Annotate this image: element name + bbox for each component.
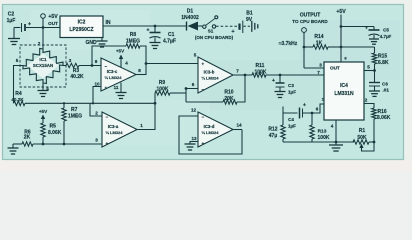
svg-text:+5V: +5V bbox=[116, 49, 125, 54]
svg-text:+: + bbox=[272, 78, 275, 84]
svg-text:¼ LM324: ¼ LM324 bbox=[202, 130, 220, 135]
resistor R11 100K bbox=[252, 63, 267, 77]
svg-text:5: 5 bbox=[16, 58, 19, 63]
wire R15 to IC4 pin 5 bbox=[364, 65, 376, 72]
wire OUT to IC2 bbox=[43, 21, 60, 28]
side ground after battery bbox=[252, 21, 258, 32]
svg-text:R9: R9 bbox=[159, 80, 166, 86]
potentiometer R1 50K bbox=[353, 128, 375, 151]
svg-text:.01: .01 bbox=[383, 88, 390, 93]
svg-text:C5: C5 bbox=[383, 28, 389, 33]
IC3-a output pin 1 bbox=[137, 93, 155, 130]
svg-text:OUT: OUT bbox=[48, 21, 58, 26]
svg-text:2K: 2K bbox=[24, 135, 31, 141]
bridge arm top-right bbox=[43, 49, 63, 66]
IC3-b output pin 7 bbox=[233, 69, 252, 77]
svg-text:OUTPUT: OUTPUT bbox=[300, 12, 321, 18]
svg-text:−: − bbox=[105, 64, 108, 69]
node line to IC3-a bbox=[25, 102, 156, 105]
ground below C6 bbox=[369, 91, 380, 96]
svg-text:+5V: +5V bbox=[48, 14, 58, 20]
capacitor C4 1uF bbox=[288, 103, 306, 129]
wire IC3-c out to IC3-b pin 5 bbox=[146, 53, 198, 64]
pin 6 label bbox=[192, 82, 195, 87]
resistor R6 2K bbox=[13, 130, 102, 147]
svg-text:5: 5 bbox=[194, 53, 197, 58]
node +5V terminal bbox=[41, 14, 59, 29]
svg-text:47µ: 47µ bbox=[269, 133, 278, 139]
svg-text:IC4: IC4 bbox=[340, 83, 348, 89]
pin 3 label bbox=[95, 138, 98, 143]
svg-text:¼ LM324: ¼ LM324 bbox=[202, 76, 220, 81]
op-amp IC3-a 1/4 LM324 bbox=[102, 112, 137, 147]
resistor R12 47u bbox=[268, 113, 285, 142]
svg-text:40.2K: 40.2K bbox=[70, 74, 84, 80]
svg-text:R7: R7 bbox=[71, 107, 78, 113]
IC3-d output pin 14 bbox=[233, 123, 242, 130]
voltage regulator IC2 LP2950CZ bbox=[60, 16, 103, 38]
svg-text:LP2950CZ: LP2950CZ bbox=[69, 27, 93, 33]
svg-text:+: + bbox=[28, 22, 31, 28]
svg-text:R10: R10 bbox=[224, 90, 233, 96]
svg-text:7: 7 bbox=[317, 70, 320, 75]
ground at IC3-c pin 11 bbox=[114, 83, 127, 99]
resistor R8 1MEG feedback bbox=[92, 32, 146, 75]
svg-text:IC1: IC1 bbox=[39, 57, 47, 62]
svg-text:+5V: +5V bbox=[39, 109, 48, 114]
svg-text:4: 4 bbox=[125, 61, 128, 66]
svg-text:11: 11 bbox=[114, 85, 119, 90]
svg-text:+: + bbox=[303, 103, 306, 109]
wire C4 to IC4 pin 6 bbox=[303, 97, 325, 115]
svg-text:R12: R12 bbox=[268, 127, 277, 133]
svg-text:R1: R1 bbox=[359, 128, 366, 134]
sensor pin 5 wire to R4 bbox=[14, 58, 24, 102]
svg-text:12: 12 bbox=[191, 108, 197, 113]
svg-text:OUT: OUT bbox=[330, 66, 340, 71]
svg-text:IC3-a: IC3-a bbox=[108, 124, 119, 129]
+5V arrow above R5 bbox=[39, 109, 48, 123]
svg-text:9: 9 bbox=[95, 59, 98, 64]
op-amp IC3-b 1/4 LM324 bbox=[198, 57, 233, 93]
capacitor C6 .01 bbox=[369, 71, 389, 93]
ground below C3 bbox=[275, 92, 286, 98]
svg-text:13: 13 bbox=[191, 136, 197, 141]
svg-text:B1: B1 bbox=[246, 11, 253, 17]
wire C2 to +5V node bbox=[14, 27, 43, 29]
svg-text:8.06K: 8.06K bbox=[377, 115, 391, 121]
svg-text:1µF: 1µF bbox=[7, 18, 16, 24]
resistor R10 20K feedback bbox=[186, 75, 245, 104]
op-amp IC3-d 1/4 LM324 bbox=[198, 112, 233, 147]
svg-text:IC2: IC2 bbox=[78, 20, 86, 26]
svg-text:+5V: +5V bbox=[336, 9, 346, 15]
svg-text:1µF: 1µF bbox=[288, 124, 296, 129]
capacitor C5 4.7uF bbox=[365, 26, 391, 40]
svg-text:−: − bbox=[202, 87, 205, 92]
svg-text:R15: R15 bbox=[378, 54, 387, 60]
svg-text:¼ LM324: ¼ LM324 bbox=[105, 75, 123, 80]
sensor pin 3 wire bbox=[63, 58, 72, 66]
page background bbox=[0, 0, 412, 171]
svg-text:−: − bbox=[106, 115, 109, 120]
ground at IC2 GND pin bbox=[85, 38, 107, 48]
wire +5V node to sensor pin 2 bbox=[38, 28, 43, 50]
svg-text:3: 3 bbox=[69, 58, 72, 63]
svg-text:C2: C2 bbox=[8, 12, 15, 18]
svg-text:+: + bbox=[105, 86, 108, 91]
ground left of R6 bbox=[8, 144, 19, 154]
svg-text:IC3-c: IC3-c bbox=[107, 69, 118, 74]
svg-text:R5: R5 bbox=[50, 124, 57, 130]
svg-text:R8: R8 bbox=[130, 32, 137, 38]
svg-text:+: + bbox=[202, 62, 205, 67]
pin 7 label bbox=[317, 70, 320, 75]
capacitor C3 1uF bbox=[272, 75, 296, 95]
svg-text:6: 6 bbox=[316, 107, 319, 112]
svg-text:IN: IN bbox=[106, 20, 111, 26]
svg-text:1µF: 1µF bbox=[288, 90, 296, 95]
svg-text:D1: D1 bbox=[187, 9, 194, 15]
bridge arm bottom-left bbox=[23, 66, 43, 84]
main ground symbol bbox=[329, 142, 343, 151]
svg-text:−: − bbox=[202, 115, 205, 120]
switch S1 (ON CPU BOARD) bbox=[195, 16, 238, 40]
svg-text:C1: C1 bbox=[168, 32, 175, 38]
output terminal to CPU board bbox=[292, 12, 328, 68]
sensor pin 4 ground bbox=[38, 83, 50, 97]
ground rail bbox=[283, 141, 354, 144]
resistor R15 6.8K bbox=[341, 47, 389, 71]
svg-text:R13: R13 bbox=[318, 129, 327, 135]
svg-text:+: + bbox=[365, 26, 368, 31]
svg-text:C6: C6 bbox=[382, 82, 388, 87]
svg-text:1MEG: 1MEG bbox=[68, 114, 82, 120]
svg-text:R14: R14 bbox=[314, 34, 323, 40]
svg-text:4.7µF: 4.7µF bbox=[380, 34, 392, 39]
svg-text:+: + bbox=[106, 141, 109, 146]
+5V arrow at IC3-c pin 4 bbox=[116, 49, 128, 68]
IC3-c output pin 8 wire bbox=[136, 62, 147, 74]
svg-text:LM331N: LM331N bbox=[334, 91, 354, 97]
svg-text:R11: R11 bbox=[256, 63, 265, 69]
svg-text:+: + bbox=[202, 141, 205, 146]
battery B1 9V bbox=[231, 11, 253, 36]
svg-text:IC3-b: IC3-b bbox=[204, 70, 215, 75]
resistor R13 100K bbox=[310, 113, 330, 142]
svg-text:≈3.7kHz: ≈3.7kHz bbox=[279, 41, 298, 47]
IC3-d pin 12 feedback loop bbox=[179, 108, 242, 155]
svg-text:+: + bbox=[231, 29, 234, 35]
svg-text:SCX15AN: SCX15AN bbox=[33, 63, 53, 68]
scan texture patches bbox=[30, 10, 150, 50]
capacitor C1 4.7uF bbox=[147, 25, 176, 45]
pin 10 wire bbox=[93, 82, 101, 104]
bridge arm top-left bbox=[23, 48, 43, 66]
resistor R5 8.06K bbox=[41, 123, 62, 145]
svg-text:3: 3 bbox=[95, 138, 98, 143]
ground below C2 bbox=[8, 28, 20, 45]
sensor IC1 labels bbox=[28, 54, 59, 79]
svg-text:2: 2 bbox=[95, 111, 98, 116]
svg-text:6: 6 bbox=[192, 82, 195, 87]
IC3-a pin 2 feedback wire bbox=[90, 103, 102, 116]
svg-text:14: 14 bbox=[236, 123, 242, 128]
wire node to C4 bbox=[283, 107, 298, 114]
ground below C5 bbox=[369, 39, 379, 44]
resistor R9 100K bbox=[155, 80, 186, 95]
svg-text:TO CPU BOARD: TO CPU BOARD bbox=[292, 19, 328, 24]
svg-text:S1: S1 bbox=[208, 29, 214, 34]
pin 3 output wire bbox=[304, 63, 324, 69]
IC4 pin 4 wire bbox=[331, 120, 336, 142]
svg-text:6.8K: 6.8K bbox=[378, 60, 389, 66]
IC3-d pin 13 ground bbox=[185, 136, 199, 150]
resistor R16 8.06K bbox=[364, 98, 391, 143]
svg-text:8: 8 bbox=[138, 68, 141, 73]
+5V rail top right bbox=[336, 9, 347, 62]
svg-text:3: 3 bbox=[319, 63, 322, 68]
svg-text:+: + bbox=[147, 28, 150, 34]
svg-text:1: 1 bbox=[140, 123, 143, 128]
svg-text:2: 2 bbox=[365, 98, 368, 103]
svg-text:(ON CPU BOARD): (ON CPU BOARD) bbox=[195, 35, 234, 40]
ground below C1 bbox=[150, 43, 161, 49]
wire R11 to IC4 pin 7 bbox=[266, 74, 324, 77]
cyan schematic panel bbox=[2, 4, 404, 160]
svg-text:4.7µF: 4.7µF bbox=[163, 39, 176, 45]
capacitor C2 1uF bbox=[7, 12, 31, 33]
pressure sensor IC1 SCX15AN dashed box bbox=[20, 45, 66, 87]
resistor R4 40.2K bbox=[11, 91, 25, 106]
svg-text:100K: 100K bbox=[318, 135, 330, 141]
svg-text:10: 10 bbox=[94, 82, 100, 87]
wire to C5 bbox=[341, 26, 374, 28]
svg-text:C3: C3 bbox=[288, 83, 294, 88]
op-amp IC3-c 1/4 LM324 bbox=[101, 58, 136, 91]
svg-text:1MEG: 1MEG bbox=[126, 39, 140, 45]
bridge arm bottom-right bbox=[43, 65, 63, 84]
svg-text:7: 7 bbox=[236, 69, 239, 74]
wire IC2 IN to diode D1 bbox=[103, 20, 186, 26]
resistor R14 1K bbox=[304, 34, 341, 49]
resistor R7 1MEG bbox=[62, 103, 82, 145]
svg-text:¼ LM324: ¼ LM324 bbox=[106, 130, 124, 135]
svg-text:1N4002: 1N4002 bbox=[181, 15, 199, 21]
svg-text:20K: 20K bbox=[224, 96, 234, 102]
svg-text:4: 4 bbox=[331, 124, 334, 129]
pin 9 label bbox=[95, 59, 98, 64]
VF converter IC4 LM331N bbox=[324, 62, 364, 120]
resistor R3 40.2K bbox=[66, 63, 101, 80]
wire to IC3-b pin 6 bbox=[185, 87, 198, 102]
svg-text:8.06K: 8.06K bbox=[48, 130, 62, 136]
svg-text:5: 5 bbox=[367, 65, 370, 70]
svg-text:IC3-d: IC3-d bbox=[204, 124, 215, 129]
diode D1 1N4002 bbox=[181, 9, 199, 31]
label 3.7kHz bbox=[279, 41, 298, 47]
svg-text:C4: C4 bbox=[288, 117, 294, 122]
svg-text:GND: GND bbox=[85, 40, 97, 46]
